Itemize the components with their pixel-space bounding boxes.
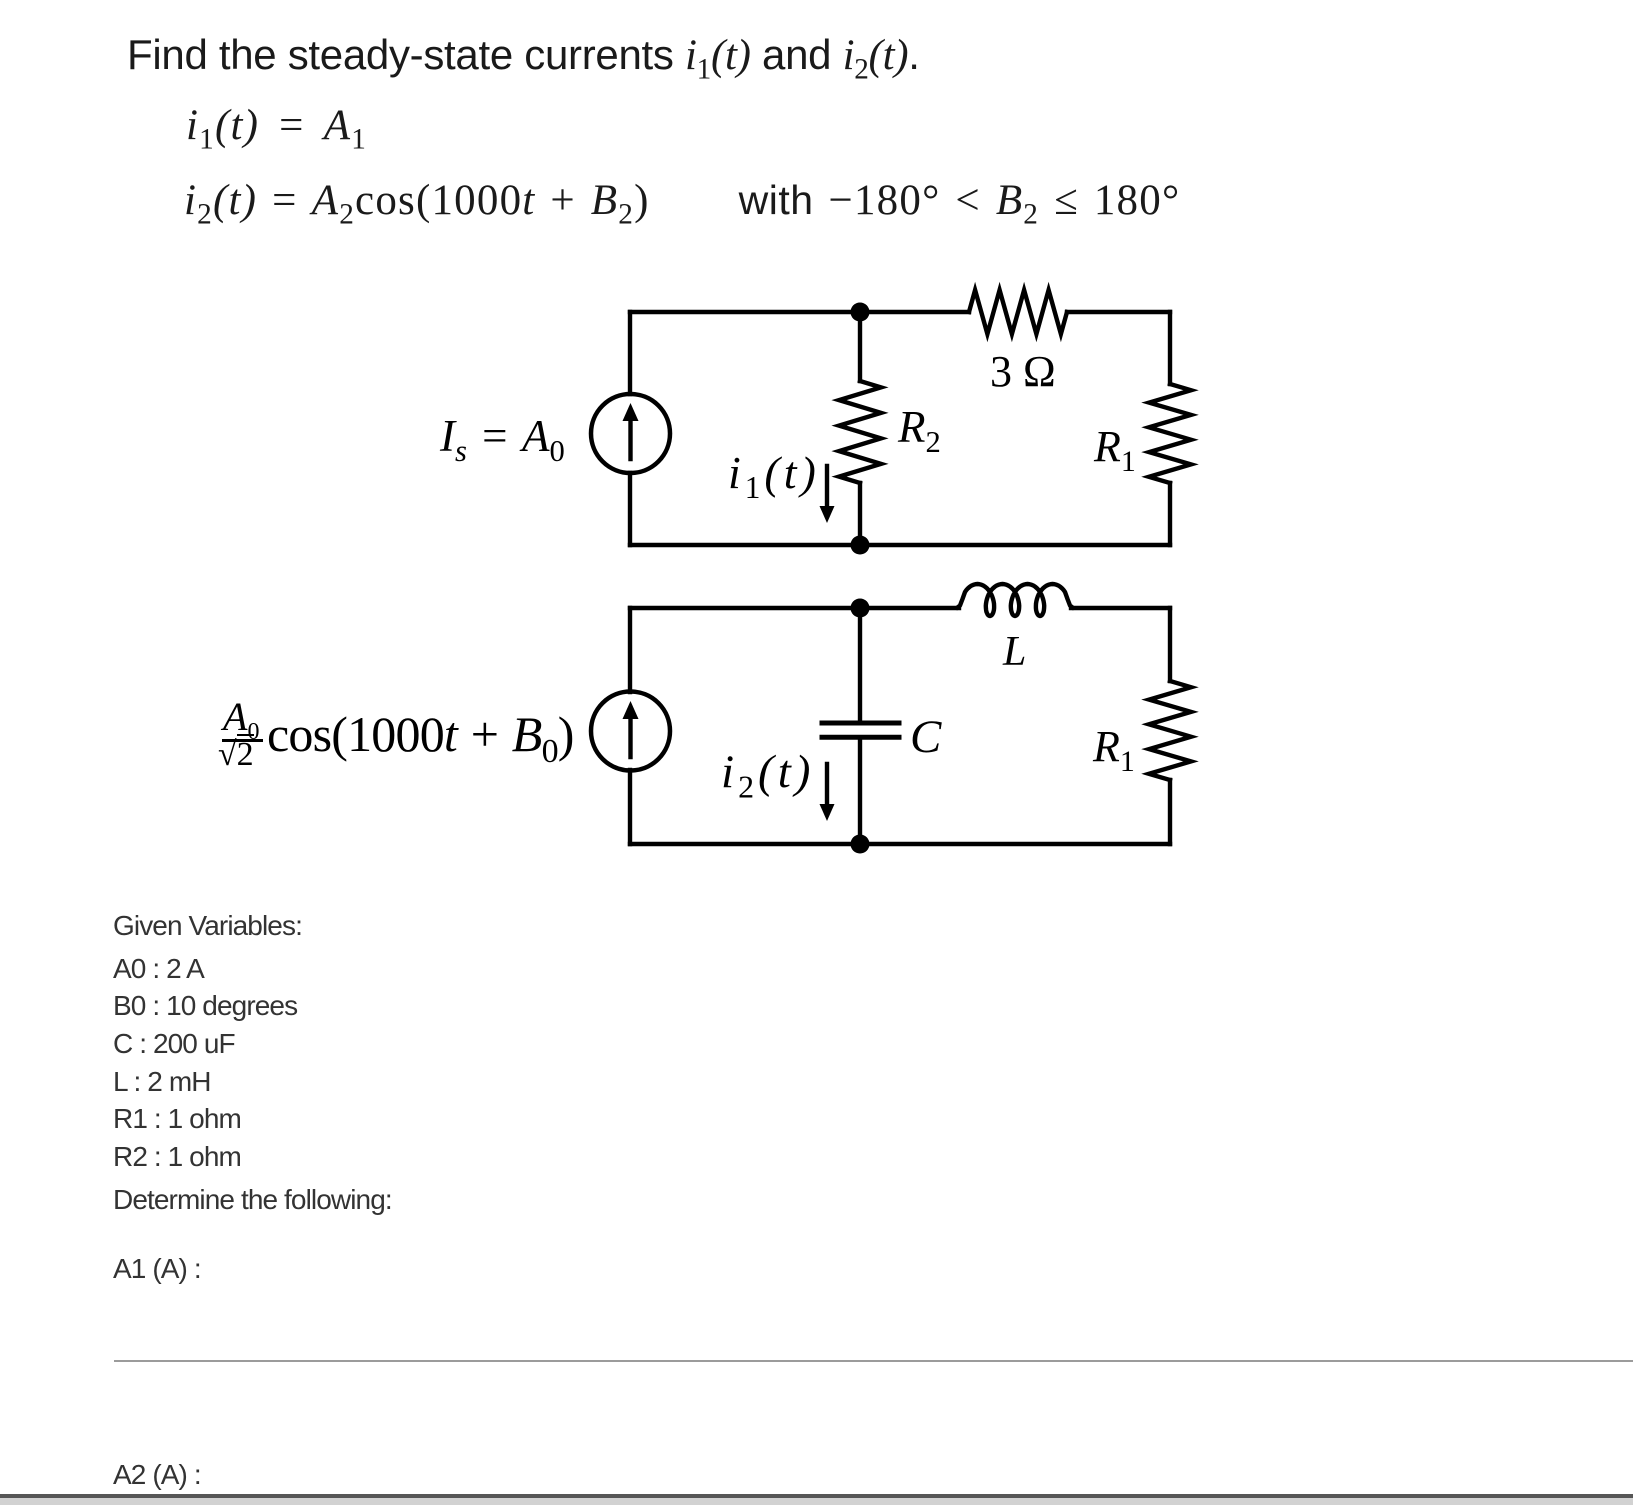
wire: middle branch lower (capacitor to node D)	[858, 740, 862, 845]
wire: right branch lower (R1 to bottom-right corner)	[1168, 483, 1172, 545]
node C (top junction dot, circuit 2)	[851, 599, 870, 618]
wire: middle branch lower (R2 to node B)	[858, 483, 862, 545]
equation i2(t)=A2cos(1000t+B2) with range	[184, 176, 1180, 232]
fraction denominator sqrt2	[218, 736, 254, 774]
bottom scrollbar track	[0, 1498, 1633, 1505]
node D (bottom junction dot, circuit 2)	[851, 835, 870, 854]
capacitor C (upper plate)	[822, 721, 899, 726]
wire: top-left segment from source corner to node A	[630, 310, 860, 314]
resistor R1 (circuit 1, vertical zigzag)	[1149, 384, 1191, 483]
label R2	[898, 401, 941, 460]
wire: top segment node A to 3-ohm resistor	[860, 310, 969, 314]
divider line	[114, 1360, 1633, 1362]
title	[127, 31, 920, 87]
capacitor C (lower plate)	[822, 735, 899, 740]
label 3 ohm	[990, 346, 1056, 397]
current arrow i2(t)	[825, 764, 829, 807]
fraction numerator A0	[223, 693, 259, 746]
current arrow i1(t)	[825, 466, 829, 509]
label cos(1000t+B0)	[267, 705, 574, 771]
wire: 3-ohm resistor to top-right corner	[1067, 310, 1170, 314]
bottom scrollbar dark edge	[0, 1494, 1633, 1498]
wire: middle branch upper (node C to capacitor)	[858, 608, 862, 721]
label R1 (circuit 1)	[1094, 421, 1136, 479]
resistor 3-ohm (horizontal zigzag)	[969, 290, 1067, 334]
wire: left branch upper (corner to source circle)	[628, 312, 632, 394]
wire: bottom wire of circuit 1	[630, 543, 1170, 547]
current source (A0/sqrt2)cos(1000t+B0) circle	[591, 692, 670, 771]
wire: inductor to top-right corner	[1071, 606, 1170, 610]
resistor R1 (circuit 2, vertical zigzag)	[1149, 681, 1191, 780]
wire: right branch upper (top-right corner to R1, circuit 2)	[1168, 608, 1172, 681]
wire: top-left segment from source corner to node C	[630, 606, 860, 610]
node B (bottom junction dot, circuit 1)	[851, 536, 870, 555]
label R1 (circuit 2)	[1093, 721, 1135, 779]
wire: top segment node C to inductor	[860, 606, 959, 610]
node A (top junction dot, circuit 1)	[851, 303, 870, 322]
label Is = A0	[440, 410, 565, 469]
label L	[1003, 628, 1026, 676]
label i2(t)	[721, 745, 814, 805]
wire: right branch upper (top-right corner to R1)	[1168, 312, 1172, 384]
fraction bar	[222, 739, 263, 742]
wire: middle branch upper (node A to R2)	[858, 312, 862, 381]
inductor L (coil)	[957, 584, 1073, 616]
Given Variables block	[113, 910, 302, 942]
resistor R2 (vertical zigzag)	[839, 381, 881, 483]
current source Is arrow	[628, 419, 632, 459]
label i1(t)	[728, 446, 820, 506]
wire: bottom wire of circuit 2	[630, 842, 1170, 846]
label C	[910, 710, 941, 764]
wire: left branch lower (source circle to bottom-left corner)	[628, 473, 632, 545]
current source arrow (circuit 2)	[628, 717, 632, 757]
wire: right branch lower (R1 to bottom-right corner, circuit 2)	[1168, 780, 1172, 844]
wire: left branch upper (corner to source circle, circuit 2)	[628, 608, 632, 692]
equation i1(t)=A1	[186, 101, 367, 157]
current source Is (circle)	[591, 394, 670, 473]
wire: left branch lower (source to bottom-left corner, circuit 2)	[628, 770, 632, 844]
